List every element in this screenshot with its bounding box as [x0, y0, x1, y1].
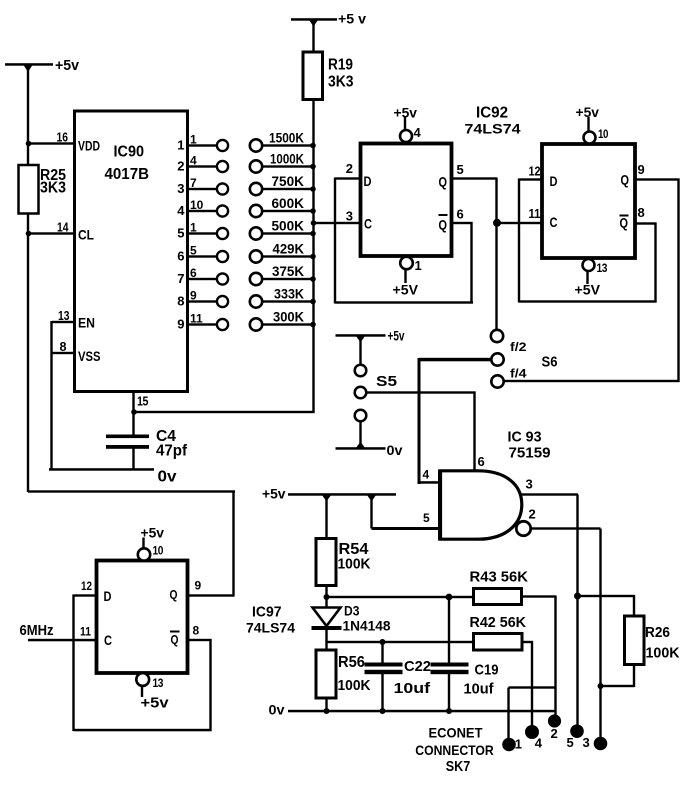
svg-text:5: 5	[423, 511, 430, 525]
svg-text:5: 5	[177, 226, 184, 241]
svg-text:Q: Q	[439, 174, 448, 190]
svg-text:Q: Q	[620, 215, 629, 231]
svg-text:CL: CL	[78, 227, 94, 243]
svg-text:0v: 0v	[158, 469, 177, 486]
svg-text:333K: 333K	[274, 286, 304, 301]
svg-text:6: 6	[190, 266, 197, 280]
svg-text:11: 11	[80, 625, 91, 639]
svg-text:100K: 100K	[338, 556, 371, 573]
svg-text:4017B: 4017B	[105, 166, 150, 183]
svg-text:14: 14	[57, 220, 69, 235]
svg-text:3K3: 3K3	[40, 180, 66, 197]
svg-text:R43 56K: R43 56K	[470, 569, 529, 586]
svg-text:9: 9	[177, 317, 184, 332]
svg-text:7: 7	[177, 271, 184, 286]
svg-text:11: 11	[190, 312, 203, 326]
svg-text:1: 1	[177, 138, 184, 153]
svg-text:13: 13	[58, 308, 70, 323]
svg-text:1: 1	[515, 737, 522, 752]
svg-text:+5v: +5v	[141, 695, 170, 712]
svg-text:3: 3	[583, 735, 590, 750]
svg-text:1000K: 1000K	[270, 151, 304, 166]
svg-text:2: 2	[346, 161, 353, 176]
svg-text:ECONET: ECONET	[429, 725, 483, 741]
svg-text:13: 13	[153, 676, 164, 690]
svg-text:+5v: +5v	[141, 525, 165, 541]
svg-text:SK7: SK7	[446, 758, 471, 775]
svg-text:10: 10	[598, 127, 609, 141]
svg-text:Q: Q	[621, 172, 630, 188]
svg-text:R26: R26	[645, 624, 670, 641]
svg-text:2: 2	[551, 726, 558, 741]
svg-text:74LS74: 74LS74	[246, 620, 295, 636]
svg-text:9: 9	[638, 162, 645, 177]
svg-text:IC97: IC97	[252, 604, 282, 621]
svg-text:R19: R19	[328, 57, 353, 74]
svg-text:2: 2	[529, 507, 536, 522]
svg-text:D: D	[364, 173, 372, 189]
svg-text:75159: 75159	[509, 445, 551, 462]
svg-text:D: D	[550, 173, 558, 189]
svg-text:R42 56K: R42 56K	[470, 614, 527, 631]
svg-text:D: D	[104, 588, 112, 604]
svg-text:74LS74: 74LS74	[465, 121, 521, 137]
svg-text:4: 4	[177, 203, 185, 218]
svg-text:0v: 0v	[387, 443, 404, 458]
svg-text:Q: Q	[170, 587, 178, 602]
svg-text:750K: 750K	[272, 174, 305, 189]
svg-text:IC90: IC90	[114, 144, 145, 161]
svg-text:8: 8	[177, 294, 184, 309]
svg-text:VSS: VSS	[78, 348, 101, 364]
svg-text:47pf: 47pf	[156, 443, 188, 460]
svg-text:+5 v: +5 v	[338, 11, 366, 27]
svg-text:429K: 429K	[273, 241, 305, 256]
svg-text:5: 5	[567, 735, 574, 750]
svg-text:C: C	[550, 214, 558, 230]
svg-text:4: 4	[190, 154, 197, 168]
svg-text:375K: 375K	[272, 264, 304, 279]
svg-text:6: 6	[457, 207, 464, 222]
svg-text:3: 3	[177, 181, 184, 196]
svg-text:+5v: +5v	[388, 329, 405, 344]
svg-text:S5: S5	[376, 373, 397, 390]
svg-text:+5v: +5v	[55, 57, 80, 74]
svg-text:10uf: 10uf	[464, 681, 495, 698]
svg-text:+5V: +5V	[393, 282, 419, 298]
svg-text:EN: EN	[78, 315, 95, 331]
svg-text:R56: R56	[338, 654, 365, 671]
svg-text:C: C	[364, 216, 372, 232]
svg-text:15: 15	[137, 394, 148, 409]
svg-text:6: 6	[478, 454, 485, 469]
svg-text:3: 3	[526, 477, 533, 492]
svg-text:4: 4	[535, 736, 543, 751]
svg-text:+5v: +5v	[262, 486, 286, 502]
svg-text:3K3: 3K3	[328, 74, 354, 91]
svg-text:C22: C22	[404, 658, 431, 675]
svg-text:1: 1	[190, 133, 197, 147]
svg-text:100K: 100K	[338, 677, 371, 694]
svg-text:10: 10	[190, 198, 204, 212]
svg-text:12: 12	[81, 579, 92, 593]
svg-text:8: 8	[193, 624, 200, 638]
svg-text:f/2: f/2	[510, 340, 527, 354]
svg-text:1: 1	[415, 258, 422, 273]
svg-text:500K: 500K	[272, 218, 305, 233]
svg-text:IC 93: IC 93	[508, 429, 542, 446]
svg-text:2: 2	[177, 159, 184, 174]
svg-text:12: 12	[529, 164, 541, 179]
svg-text:10uf: 10uf	[394, 680, 432, 697]
svg-text:C: C	[104, 632, 112, 648]
svg-text:f/4: f/4	[510, 367, 527, 381]
svg-text:C19: C19	[475, 662, 499, 679]
svg-text:Q: Q	[439, 217, 448, 233]
svg-text:8: 8	[60, 339, 67, 354]
svg-text:VDD: VDD	[78, 138, 100, 154]
svg-text:Q: Q	[171, 632, 179, 647]
svg-text:CONNECTOR: CONNECTOR	[415, 742, 494, 758]
svg-text:600K: 600K	[272, 196, 305, 211]
svg-text:3: 3	[346, 208, 353, 223]
svg-text:1500K: 1500K	[269, 130, 304, 145]
svg-text:7: 7	[190, 176, 197, 190]
svg-text:9: 9	[195, 579, 202, 593]
svg-text:1N4148: 1N4148	[343, 618, 391, 634]
svg-text:+5v: +5v	[394, 105, 418, 121]
svg-text:IC92: IC92	[476, 105, 508, 122]
svg-text:5: 5	[457, 162, 464, 177]
svg-text:300K: 300K	[273, 309, 304, 324]
svg-text:1: 1	[190, 221, 197, 235]
svg-text:4: 4	[423, 468, 430, 482]
svg-text:16: 16	[57, 130, 69, 145]
svg-text:5: 5	[190, 244, 197, 258]
svg-text:D3: D3	[344, 603, 360, 619]
svg-text:6: 6	[177, 249, 184, 264]
svg-text:100K: 100K	[646, 645, 680, 662]
svg-text:S6: S6	[542, 354, 558, 371]
svg-text:11: 11	[529, 206, 541, 221]
svg-text:9: 9	[190, 289, 197, 303]
svg-text:10: 10	[153, 544, 164, 558]
svg-text:0v: 0v	[269, 702, 285, 718]
svg-text:+5V: +5V	[575, 282, 601, 298]
svg-text:+5v: +5v	[576, 104, 600, 120]
svg-text:4: 4	[414, 125, 422, 140]
svg-text:13: 13	[597, 261, 608, 275]
svg-text:8: 8	[638, 205, 645, 220]
svg-text:6MHz: 6MHz	[20, 622, 54, 639]
